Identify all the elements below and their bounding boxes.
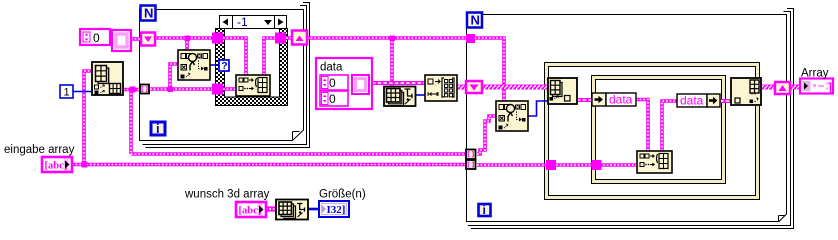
for-loop 1 front page xyxy=(140,10,304,141)
unbundle by name node xyxy=(592,93,636,107)
wire: replace node up to bundle input xyxy=(662,101,677,151)
wire: eingabe array long run with branch up to index node xyxy=(72,71,466,165)
label eingabe array xyxy=(4,144,75,156)
svg-text:wunsch 3d array: wunsch 3d array xyxy=(184,189,270,201)
svg-text:[abc]: [abc] xyxy=(239,206,262,217)
shift register left loop2 (down arrow) xyxy=(466,81,482,93)
loop2 lower array tunnel xyxy=(466,160,476,169)
wire: cluster constant to initialize array (dashed) xyxy=(372,81,425,85)
index array node in loop2 xyxy=(548,78,577,104)
junction dot on loop1 top wire xyxy=(185,36,191,42)
wire: loop2 left shift register to index array (thick 2D) xyxy=(482,85,548,90)
svg-text:data: data xyxy=(680,94,704,108)
initialize array node xyxy=(425,75,457,101)
svg-text:0: 0 xyxy=(329,76,336,90)
wire: initialize array to loop2 left shift register (thick 2D) xyxy=(457,85,466,90)
wire: loop1 left tunnel to case low tunnel with branch up to search node xyxy=(150,64,212,89)
svg-text:[abc]: [abc] xyxy=(45,161,68,172)
svg-text:1: 1 xyxy=(64,87,70,99)
wire: long run to loop2 upper tunnel xyxy=(131,152,466,156)
wire: wunsch array to array size 2 (thick 3D) xyxy=(266,206,276,211)
wire: loop1 output across to loop2 with branch down to array size xyxy=(307,38,467,90)
case selector label xyxy=(220,15,287,29)
svg-text:?: ? xyxy=(221,60,227,72)
i terminal loop2 xyxy=(479,203,491,217)
N terminal loop1 xyxy=(141,6,156,21)
wire: case internals left tunnel down to replace node xyxy=(223,38,246,75)
svg-text:Array: Array xyxy=(801,68,829,80)
svg-text:data: data xyxy=(609,93,633,107)
wire: case right tunnel to up shift register xyxy=(286,36,292,40)
junction dot main output wire xyxy=(390,36,396,42)
wire: right replace node to right shift register (thick 2D) xyxy=(762,85,775,90)
shift register right loop2 (up arrow) xyxy=(775,82,790,94)
for-loop 2 shadow pages xyxy=(468,9,794,229)
wire: case low tunnel to replace node xyxy=(223,87,236,91)
junction dot eingabe wire xyxy=(82,162,88,168)
wire: index node output to loop1 tunnel and down xyxy=(123,90,140,155)
label wunsch 3d array xyxy=(184,189,270,201)
svg-text:data: data xyxy=(320,62,343,74)
loop2 input tunnel top xyxy=(466,34,475,43)
array size node 2 xyxy=(276,200,308,220)
label Größe(n) xyxy=(319,189,366,201)
empty string array constant element xyxy=(112,30,131,51)
wire: bundle to right replace node (dashed) xyxy=(720,99,730,103)
replace array subset node right xyxy=(731,78,761,105)
wire: right shift register to Array indicator (thick 2D) xyxy=(790,85,800,90)
svg-text:eingabe array: eingabe array xyxy=(4,144,75,156)
wunsch 3d array control xyxy=(236,202,266,217)
wire: unbundle output down to replace node top xyxy=(636,100,648,152)
svg-text:Größe(n): Größe(n) xyxy=(319,189,366,201)
N terminal loop2 xyxy=(467,13,482,28)
wire: shift register to case tunnel with branch to search node xyxy=(155,38,213,50)
wire: replace node up to case right tunnel xyxy=(264,38,275,75)
loop2 upper array tunnel xyxy=(466,150,476,160)
case structure border (checkered) xyxy=(216,29,288,106)
case tunnel top-left xyxy=(212,33,223,44)
svg-text:0: 0 xyxy=(329,92,336,106)
outer frame tunnel xyxy=(546,160,556,170)
wire: empty array constant to left shift register loop1 xyxy=(131,37,141,41)
numeric index display of array constant xyxy=(80,29,110,45)
wire: loop2 upper tunnel up to search node input xyxy=(477,116,496,154)
inner frame inner (in loop 2) xyxy=(592,76,726,184)
replace array subset node in case xyxy=(236,75,270,96)
Array indicator xyxy=(800,79,833,95)
eingabe array control xyxy=(42,157,72,172)
wire: array size to initialize array (blue) xyxy=(415,94,425,96)
inner frame tunnel xyxy=(592,160,602,170)
loop1 left array tunnel xyxy=(140,85,149,94)
case tunnel low-left xyxy=(212,84,223,95)
for-loop 1 shadow pages xyxy=(143,3,310,148)
? comparison box xyxy=(219,60,229,72)
case tunnel top-right xyxy=(275,33,286,44)
svg-text:i: i xyxy=(156,121,160,136)
junction dot on loop1 bottom wire xyxy=(168,87,174,93)
svg-text:0: 0 xyxy=(93,31,100,45)
1 constant xyxy=(60,85,73,99)
search 1D array node in loop1 xyxy=(178,50,210,80)
wire: search node to index array (blue) xyxy=(528,101,548,116)
bundle by name node xyxy=(677,94,720,108)
svg-text:N: N xyxy=(144,6,153,21)
wire: index array to unbundle (dashed) xyxy=(577,98,592,102)
wire: 1 constant to index node (blue) xyxy=(73,91,92,93)
svg-text:-1: -1 xyxy=(237,15,248,29)
inner frame outer (in loop 2) xyxy=(545,63,760,200)
replace array subset node in frames xyxy=(637,151,672,173)
i terminal loop1 xyxy=(151,121,165,136)
svg-text:]: ] xyxy=(828,81,832,95)
shift register left loop1 (down arrow) xyxy=(141,33,155,46)
svg-text:N: N xyxy=(471,13,480,28)
I32 indicator xyxy=(319,201,349,217)
svg-text:I32]: I32] xyxy=(327,204,346,216)
data cluster constant xyxy=(316,58,372,109)
for-loop 2 front page xyxy=(467,15,787,222)
label Array xyxy=(801,68,829,80)
index array node left (before loop1) xyxy=(92,62,123,95)
wire: search node to ? box (blue) xyxy=(210,64,219,66)
search 1D array node in loop2 xyxy=(496,101,528,131)
wire: loop2 tunnel to search node top xyxy=(471,38,504,101)
junction dot index node output xyxy=(130,87,136,93)
shift register right loop1 (up arrow) xyxy=(292,31,307,45)
array size node 1 xyxy=(384,87,416,107)
wire: loop2 lower tunnel through frames to replace node xyxy=(477,163,637,167)
wire: array size 2 to I32 indicator (blue) xyxy=(308,208,320,211)
svg-text:i: i xyxy=(483,203,486,217)
